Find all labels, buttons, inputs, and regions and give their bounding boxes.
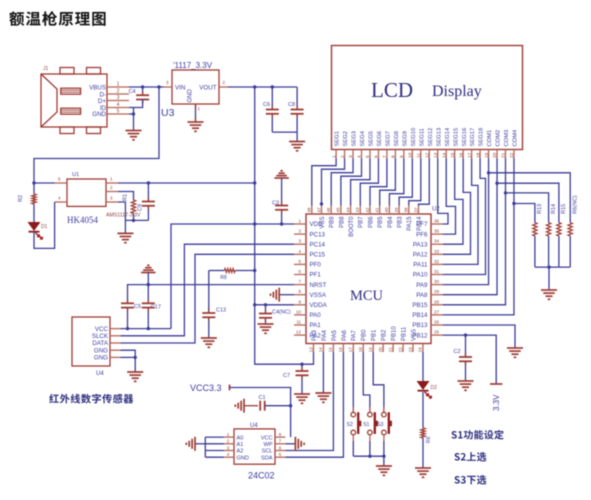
svg-text:PC14: PC14: [310, 241, 326, 248]
wire SEG17 to MCU pin 32: [443, 158, 478, 264]
resistor R6(NC): [568, 223, 572, 236]
wire sensor GNG2: [120, 356, 135, 358]
svg-text:PA3: PA3: [312, 329, 318, 341]
wire D1 to U1 pin4: [34, 202, 55, 248]
svg-text:SEG1: SEG1: [335, 131, 341, 146]
MCU pin 40 PB4: [388, 206, 390, 215]
MCU pin 18 PB0: [362, 344, 364, 353]
svg-text:SEG7: SEG7: [386, 131, 392, 146]
MCU pin 24: [422, 344, 424, 353]
svg-text:27: 27: [434, 309, 440, 314]
wire GND pin to column: [129, 113, 134, 115]
svg-text:PA0: PA0: [310, 312, 322, 319]
MCU pin 42 PB6: [369, 206, 371, 215]
MCU pin 28 PB15: [431, 304, 443, 306]
svg-text:S2: S2: [347, 422, 353, 428]
svg-text:37: 37: [413, 207, 418, 213]
MCU pin 43 PB7: [359, 206, 361, 215]
svg-text:SEG16: SEG16: [462, 128, 468, 147]
svg-text:PA8: PA8: [416, 292, 428, 299]
svg-text:34: 34: [434, 239, 440, 244]
wire COM2 to MCU pin 29: [443, 158, 497, 294]
resistor R14: [546, 223, 550, 236]
svg-text:SEG9: SEG9: [402, 131, 408, 146]
svg-text:S3: S3: [377, 422, 383, 428]
svg-text:C8: C8: [288, 102, 295, 108]
MCU pin 45 PB8: [340, 206, 342, 215]
svg-text:4: 4: [117, 102, 120, 108]
MCU pin 14 PA4: [322, 344, 324, 353]
wire C6-C8 bottom join: [272, 131, 297, 133]
svg-text:16: 16: [338, 347, 343, 353]
svg-text:12: 12: [424, 152, 430, 158]
MCU pin 9 VDDA: [294, 304, 306, 306]
U4 pin 2 SLCK: [110, 335, 120, 337]
LED D2: [417, 381, 430, 390]
connector J1: [41, 74, 107, 127]
svg-text:15: 15: [328, 347, 333, 353]
label S3 down: [454, 475, 486, 484]
LCD pin 16 SEG16: [462, 150, 464, 159]
svg-text:10: 10: [296, 309, 302, 314]
svg-text:33: 33: [434, 249, 440, 254]
svg-text:SDA: SDA: [261, 455, 273, 461]
node COM1 branch: [487, 171, 490, 174]
wire 24C02 address bus: [205, 436, 224, 438]
svg-text:PA9: PA9: [416, 282, 428, 289]
wire VSS pin24 to D2: [422, 352, 424, 381]
svg-text:39: 39: [394, 207, 399, 213]
svg-text:S1: S1: [363, 422, 369, 428]
node S3 common: [382, 455, 385, 458]
node C3-VDD row: [280, 222, 283, 225]
svg-text:20: 20: [492, 152, 498, 158]
svg-text:13: 13: [308, 347, 313, 353]
wire SEG7 to MCU pin 42: [370, 158, 387, 205]
24C02 pin 8 VCC: [275, 436, 285, 438]
U3 pin 3 VIN: [164, 86, 173, 88]
svg-text:38: 38: [404, 207, 409, 213]
svg-text:DATA: DATA: [92, 340, 108, 347]
U1 pin 4: [55, 201, 67, 203]
svg-text:PA5: PA5: [332, 329, 338, 341]
node VSS pin47: [320, 202, 323, 205]
svg-text:AMS1117-3.3V: AMS1117-3.3V: [106, 213, 141, 219]
MCU pin 38 PA15: [408, 206, 410, 215]
MCU pin 25 PB12: [431, 334, 443, 336]
svg-text:R2: R2: [18, 195, 24, 202]
svg-text:PA13: PA13: [413, 241, 428, 248]
svg-text:12: 12: [296, 330, 302, 335]
wire SEG15 to MCU pin 34: [443, 158, 463, 244]
svg-text:Display: Display: [432, 83, 482, 100]
svg-text:PA6: PA6: [342, 329, 348, 341]
LCD pin 15 SEG15: [454, 150, 456, 159]
node R1 bottom: [132, 219, 135, 222]
svg-text:U3: U3: [161, 107, 175, 119]
svg-text:3: 3: [348, 155, 354, 158]
node VBUS-C4 junction: [141, 85, 144, 88]
svg-text:24C02: 24C02: [248, 471, 275, 481]
svg-text:MCU: MCU: [350, 288, 384, 304]
svg-text:GNG: GNG: [94, 355, 108, 362]
MCU pin 31 PA10: [431, 274, 443, 276]
svg-text:PA14: PA14: [417, 216, 423, 231]
MCU pin 15 PA5: [332, 344, 334, 353]
U4 pin 3 DATA: [110, 342, 120, 344]
LCD pin 14 SEG14: [445, 150, 447, 159]
MCU pin 33 PA12: [431, 253, 443, 255]
U4 pin 4 GNG: [110, 349, 120, 351]
svg-text:R6(NC): R6(NC): [572, 195, 578, 214]
svg-text:24: 24: [418, 347, 423, 353]
node join: [547, 265, 550, 268]
svg-text:VSSA: VSSA: [310, 292, 327, 299]
wire COM1 to MCU pin 30: [443, 158, 489, 284]
svg-text:SEG3: SEG3: [352, 131, 358, 146]
U1 pin 1: [106, 182, 118, 184]
wire column down to ground: [133, 108, 135, 131]
svg-text:C1: C1: [258, 395, 265, 401]
MCU pin 30 PA9: [431, 284, 443, 286]
node VOUT-rail junction: [253, 85, 256, 88]
svg-text:SEG14: SEG14: [445, 127, 451, 146]
ground left of C1: [243, 399, 245, 413]
node C5 bottom: [126, 327, 129, 330]
svg-text:PB5: PB5: [378, 216, 384, 228]
LCD pin 11 SEG11: [420, 150, 422, 159]
svg-text:18: 18: [358, 347, 363, 353]
svg-text:SEG5: SEG5: [369, 131, 375, 146]
MCU pin 32 PA11: [431, 263, 443, 265]
svg-text:25: 25: [434, 330, 440, 335]
eeprom U4 24C02: [234, 429, 275, 464]
svg-text:15: 15: [450, 152, 456, 158]
svg-text:PC15: PC15: [310, 252, 326, 259]
svg-text:GNG: GNG: [94, 347, 108, 354]
svg-text:3: 3: [117, 95, 120, 101]
svg-text:SEG8: SEG8: [394, 131, 400, 146]
svg-text:R1: R1: [123, 194, 129, 201]
wire R1/C9 bottom rail: [125, 219, 148, 221]
wire PC15 to sensor DATA: [120, 254, 294, 343]
wire COM3 to MCU pin 28: [443, 158, 506, 304]
svg-text:SEG11: SEG11: [419, 128, 425, 146]
svg-text:28: 28: [434, 299, 440, 304]
MCU pin 47 VSS: [321, 206, 323, 215]
sensor U4: [72, 317, 110, 366]
wire PC14 to sensor SLCK: [120, 244, 294, 336]
MCU pin 8 VSSA: [294, 294, 306, 296]
24C02 pin 5 SDA: [275, 456, 285, 458]
wire COM2 to bias resistor: [497, 183, 559, 222]
svg-text:SEG17: SEG17: [470, 128, 476, 147]
wire resistor join: [535, 266, 570, 268]
svg-text:2: 2: [117, 89, 120, 95]
svg-text:17: 17: [467, 152, 473, 158]
LCD pin 9 SEG9: [403, 150, 405, 159]
svg-text:21: 21: [501, 152, 507, 158]
LCD pin 8 SEG8: [394, 150, 396, 159]
LCD pin 21 COM3: [505, 150, 507, 159]
J1 pin 2 D-: [107, 93, 129, 95]
wire PB1 to S3: [373, 352, 384, 412]
LCD pin 20 COM2: [496, 150, 498, 159]
button S3: [383, 407, 385, 412]
svg-text:18: 18: [475, 152, 481, 158]
label 红外线数字传感器: [49, 394, 133, 404]
svg-text:5: 5: [365, 155, 371, 158]
svg-text:PB11: PB11: [401, 326, 407, 341]
svg-text:PC13: PC13: [310, 231, 326, 238]
svg-text:COM4: COM4: [513, 129, 519, 147]
svg-text:C4(NC): C4(NC): [272, 310, 291, 316]
svg-text:C13: C13: [216, 308, 226, 314]
wire SEG3 to MCU pin 46: [331, 158, 353, 205]
svg-text:PB6: PB6: [368, 216, 374, 228]
svg-text:GND: GND: [237, 455, 249, 461]
charger U1 HK4054: [67, 179, 106, 206]
resistor R15: [557, 223, 561, 236]
wire SEG5 to MCU pin 44: [351, 158, 370, 205]
MCU pin 21 PB10: [392, 344, 394, 353]
node GNG junction: [134, 356, 137, 359]
ground at PB13: [507, 347, 523, 349]
svg-text:32: 32: [434, 259, 440, 264]
svg-text:C5: C5: [134, 304, 141, 310]
wire SEG6 to MCU pin 43: [360, 158, 378, 205]
MCU pin 27 PB14: [431, 314, 443, 316]
svg-text:26: 26: [434, 320, 440, 325]
wire COM1 to bias resistor: [489, 173, 571, 223]
svg-text:22: 22: [509, 152, 515, 158]
MCU pin 4 PC15: [294, 253, 306, 255]
wire R8 to C13: [208, 271, 210, 314]
wire PB13 to ground: [443, 325, 515, 348]
svg-text:7: 7: [382, 155, 388, 158]
ground at PA4: [315, 392, 331, 394]
svg-text:R8: R8: [220, 275, 227, 281]
ground under R6: [415, 467, 431, 469]
svg-text:21: 21: [388, 347, 393, 353]
resistor R13: [533, 223, 537, 236]
MCU pin 39 PB3: [398, 206, 400, 215]
LCD pin 5 SEG5: [369, 150, 371, 159]
svg-text:HK4054: HK4054: [67, 215, 98, 225]
node rail-R8: [253, 269, 256, 272]
svg-text:PB8: PB8: [339, 216, 345, 228]
wire sensor VCC row: [120, 328, 171, 330]
node rail-U1pin1: [253, 181, 256, 184]
svg-text:C2: C2: [453, 349, 460, 355]
ground under sensor: [127, 371, 143, 373]
wire SEG4 to MCU pin 45: [341, 158, 362, 205]
svg-text:GND: GND: [188, 89, 194, 103]
title 额温枪原理图: [9, 11, 105, 26]
MCU pin 1 VDD: [294, 223, 306, 225]
wire SEG9 to MCU pin 40: [389, 158, 403, 205]
U3 pin 1 GND: [195, 104, 197, 122]
svg-text:5: 5: [117, 109, 120, 115]
wire PA5 to 24C02 SCL: [285, 352, 333, 451]
wire PA6 to 24C02 SDA: [285, 352, 343, 457]
svg-text:VIN: VIN: [175, 85, 185, 92]
wire R6 to ground: [422, 438, 424, 468]
MCU pin 19 PB1: [372, 344, 374, 353]
U3 pin 2 VOUT: [219, 86, 228, 88]
ground under C4NC: [258, 323, 274, 325]
ground under C13: [201, 337, 217, 339]
svg-text:29: 29: [434, 289, 440, 294]
svg-text:23: 23: [408, 347, 413, 353]
LCD pin 19 COM1: [488, 150, 490, 159]
MCU pin 6 PF1: [294, 274, 306, 276]
LCD pin 6 SEG6: [377, 150, 379, 159]
svg-text:19: 19: [484, 152, 490, 158]
svg-text:R14: R14: [551, 204, 557, 214]
node S1 common: [368, 455, 371, 458]
svg-text:1: 1: [117, 82, 120, 88]
MCU pin 35 PF6: [431, 233, 443, 235]
svg-text:30: 30: [434, 279, 440, 284]
node VDDA-C4NC: [264, 303, 267, 306]
svg-text:R6: R6: [426, 436, 432, 443]
wire U1 pin2 to R1: [118, 192, 134, 201]
svg-text:19: 19: [368, 347, 373, 353]
wire PA7 to S2: [352, 352, 354, 412]
24C02 pin 1 A0: [224, 436, 234, 438]
svg-text:PB13: PB13: [412, 322, 428, 329]
LCD module box: [332, 46, 523, 150]
wire SEG13 to MCU pin 36: [438, 158, 448, 224]
svg-text:COM3: COM3: [504, 130, 510, 147]
svg-text:COM1: COM1: [487, 130, 493, 147]
svg-text:PB1: PB1: [372, 329, 378, 341]
MCU pin 2 PC13: [294, 233, 306, 235]
svg-text:PA12: PA12: [413, 252, 428, 259]
MCU pin 10 PA0: [294, 314, 306, 316]
svg-text:PB10: PB10: [392, 326, 398, 341]
svg-text:45: 45: [336, 207, 341, 213]
wire SEG18 to MCU pin 31: [443, 158, 486, 274]
wire VDD row to sensor column: [171, 224, 294, 329]
svg-text:VCC3.3: VCC3.3: [190, 383, 222, 393]
svg-text:PB0: PB0: [362, 329, 368, 341]
wire COM4 to bias resistor: [514, 204, 535, 223]
wire to U1 pin5: [34, 182, 55, 184]
power port 3.3V: [490, 383, 502, 385]
svg-text:VSS: VSS: [411, 329, 417, 341]
MCU pin 16 PA6: [342, 344, 344, 353]
svg-text:COM2: COM2: [496, 130, 502, 147]
wire join to ground: [548, 267, 550, 290]
MCU pin 13 PA3: [313, 344, 315, 353]
svg-text:11: 11: [296, 320, 301, 325]
MCU pin 3 PC14: [294, 243, 306, 245]
svg-text:D1: D1: [41, 224, 48, 230]
svg-text:PF0: PF0: [310, 262, 322, 269]
LCD pin 7 SEG7: [386, 150, 388, 159]
svg-text:14: 14: [318, 347, 323, 353]
svg-text:14: 14: [441, 152, 447, 158]
wire C8 to ground: [296, 132, 298, 141]
U1 pin 2: [106, 191, 118, 193]
wire VCC3.3 to 24C02 VCC: [230, 388, 291, 438]
ground under J1: [126, 130, 142, 132]
wire U1 pin3 to ground column: [118, 202, 126, 233]
svg-text:SEG2: SEG2: [343, 131, 349, 146]
node COM4 branch: [512, 202, 515, 205]
24C02 pin 3 A2: [224, 450, 234, 452]
U4 pin 5 GNG: [110, 356, 120, 358]
svg-text:WP: WP: [263, 442, 272, 448]
MCU pin 22 PB11: [402, 344, 404, 353]
MCU pin 37 PA14: [418, 206, 420, 215]
wire PB0 to S1: [363, 352, 370, 412]
node COM3 branch: [504, 191, 507, 194]
ground under bias resistors: [541, 289, 557, 291]
ground under R1/C9: [117, 232, 133, 234]
U1 pin 3: [106, 201, 118, 203]
svg-text:SCL: SCL: [262, 449, 273, 455]
svg-text:PA7: PA7: [352, 329, 358, 341]
MCU U2 box: [306, 214, 431, 344]
svg-text:SEG13: SEG13: [436, 128, 442, 147]
label S1 function: [451, 430, 503, 440]
svg-text:10: 10: [408, 152, 414, 158]
svg-text:6: 6: [374, 155, 380, 158]
svg-text:VOUT: VOUT: [199, 85, 216, 92]
svg-text:1: 1: [331, 155, 337, 158]
svg-text:31: 31: [434, 269, 440, 274]
button S2: [352, 407, 354, 412]
svg-text:PB4: PB4: [388, 216, 394, 228]
ground left of 24C02: [195, 443, 205, 445]
wire PB12 to 3.3V: [443, 335, 496, 384]
wire SEG10 to MCU pin 39: [399, 158, 412, 205]
svg-text:J1: J1: [43, 66, 49, 72]
node VBUS descent junction: [157, 85, 160, 88]
svg-text:R15: R15: [561, 204, 567, 214]
wire SEG12 to MCU pin 37: [419, 158, 430, 205]
wire VBUS down-left to U1 pin5: [34, 87, 159, 183]
MCU pin 36 PF7: [431, 223, 443, 225]
LCD pin 22 COM4: [513, 150, 515, 159]
wire SEG14 to MCU pin 35: [443, 158, 456, 234]
24C02 pin 6 SCL: [275, 450, 285, 452]
svg-text:VDDA: VDDA: [310, 302, 328, 309]
24C02 pin 2 A1: [224, 443, 234, 445]
wire SEG16 to MCU pin 33: [443, 158, 471, 254]
24C02 pin 4 GND: [224, 456, 234, 458]
wire VDDA row: [255, 304, 294, 306]
MCU pin 7 NRST: [294, 284, 306, 286]
svg-text:VSS: VSS: [320, 217, 326, 229]
wire VBUS to U3 VIN: [129, 86, 164, 88]
svg-text:PB9: PB9: [330, 216, 336, 228]
svg-text:4: 4: [357, 155, 363, 158]
svg-text:47: 47: [316, 207, 321, 213]
svg-text:17: 17: [348, 347, 353, 353]
J1 pin 3 D+: [107, 100, 129, 102]
LCD pin 17 SEG17: [471, 150, 473, 159]
button S1: [369, 407, 371, 412]
node NRST-C17: [147, 283, 150, 286]
svg-text:46: 46: [326, 207, 331, 213]
wire COM3 to bias resistor: [506, 193, 549, 223]
wire U1 pin1 to rail: [118, 182, 255, 184]
svg-text:U1: U1: [72, 172, 79, 178]
